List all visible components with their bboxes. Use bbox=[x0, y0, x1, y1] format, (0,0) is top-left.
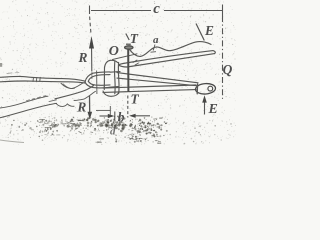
svg-text:R: R bbox=[78, 50, 88, 65]
svg-text:E: E bbox=[208, 102, 218, 117]
svg-text:T: T bbox=[131, 91, 140, 106]
svg-text:d: d bbox=[110, 126, 116, 138]
svg-text:Q: Q bbox=[223, 62, 233, 77]
svg-text:T: T bbox=[130, 31, 139, 46]
svg-text:c: c bbox=[153, 1, 160, 17]
svg-text:O: O bbox=[109, 44, 119, 59]
svg-text:b: b bbox=[118, 110, 125, 125]
svg-text:R: R bbox=[76, 100, 86, 115]
svg-text:E: E bbox=[204, 23, 214, 38]
svg-text:a: a bbox=[153, 34, 159, 46]
